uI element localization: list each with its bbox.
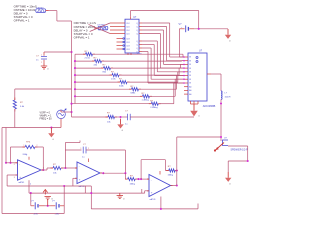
wire battery left down to U2: [178, 29, 180, 57]
wire: [56, 11, 58, 21]
speaker output loop: [228, 145, 248, 147]
op2 power stubs: [88, 159, 90, 163]
battery V+: [30, 193, 32, 206]
ground mid: [120, 119, 122, 125]
ladder row 8 wire: [72, 103, 152, 105]
svg-text:7: 7: [26, 155, 27, 157]
capacitor C3 mid: [127, 114, 129, 120]
wire bus to R2: [15, 88, 72, 90]
capacitor C2 feedback: [64, 150, 66, 168]
resistor R4 ladder: [112, 74, 119, 77]
wire row 8 to U2 pin: [158, 103, 174, 105]
svg-text:10mH: 10mH: [225, 97, 231, 99]
resistor R6: [128, 178, 136, 181]
svg-text:FREQ = 50: FREQ = 50: [40, 117, 53, 120]
op1 power stubs: [28, 157, 30, 160]
ground at input node: [50, 128, 52, 134]
svg-text:ADC0808B: ADC0808B: [203, 105, 216, 108]
resistor R8 ladder: [151, 102, 158, 105]
battery V-: [63, 186, 65, 214]
wire: [72, 116, 109, 118]
wire row 1 to U2 pin: [93, 53, 184, 55]
svg-text:SPEAKER-1/2-P: SPEAKER-1/2-P: [231, 149, 249, 152]
ground under C1: [43, 64, 45, 67]
ladder row 3 wire: [75, 67, 104, 69]
op3 output up to speaker: [171, 185, 177, 187]
wire op2 V- branch: [90, 186, 92, 209]
svg-text:-: -: [79, 165, 80, 169]
junction: [220, 102, 222, 104]
U1 right pins: [139, 22, 142, 24]
ladder row 2 wire: [75, 60, 95, 62]
resistor R3 ladder: [104, 67, 111, 70]
op1 + input to mid rail: [7, 174, 17, 176]
DAC U2 body: [188, 53, 207, 101]
speaker arrow: [216, 143, 225, 151]
op2 + input to rail: [73, 177, 77, 179]
svg-text:uA741: uA741: [150, 198, 157, 201]
analog bus node: [71, 21, 73, 117]
svg-text:1.4Meg: 1.4Meg: [142, 100, 150, 102]
wire diagonal to U1 pin: [89, 24, 111, 33]
op-amp U6 triangle: [149, 175, 171, 197]
svg-text:OPPVAL = 1: OPPVAL = 1: [14, 19, 30, 23]
wire battery to ground: [194, 28, 228, 30]
svg-text:21.5k: 21.5k: [85, 58, 91, 60]
wire to op3 -: [135, 178, 149, 180]
ground stem U2: [193, 104, 195, 111]
op3 + input to rail: [145, 190, 149, 192]
ground 0 top right: [227, 29, 229, 35]
ground speaker: [227, 172, 229, 178]
svg-text:1Meg: 1Meg: [168, 175, 174, 177]
wire left loop: [1, 128, 3, 214]
ladder row 7 wire: [75, 95, 143, 97]
resistor R6 ladder: [132, 88, 139, 91]
wire sine bottom / input node: [2, 127, 61, 129]
svg-text:6: 6: [43, 168, 44, 170]
op1 output: [41, 169, 47, 171]
resistor R8 feedback bridge: [140, 160, 142, 179]
svg-text:-: -: [151, 178, 152, 182]
resistor R7 ladder: [143, 95, 150, 98]
op3 power stubs: [159, 171, 161, 175]
wire: [14, 109, 16, 128]
op1 pin ticks: [16, 162, 18, 164]
ladder row 6 wire: [75, 88, 132, 90]
wire to U2 ground node: [130, 116, 194, 118]
op2 pin ticks: [75, 167, 77, 169]
wire L1 down to speaker: [220, 99, 222, 141]
ladder row 5 wire: [75, 81, 120, 83]
wire row 2 to U2 pin: [102, 60, 182, 62]
op-amp U5 triangle: [77, 162, 100, 184]
ground on rail: [119, 193, 121, 196]
resistor R2 ladder: [95, 60, 102, 63]
small stub net: [65, 142, 80, 144]
ladder row 1 wire: [75, 53, 86, 55]
ground under U2: [190, 111, 198, 117]
svg-text:2: 2: [14, 164, 15, 166]
resistor R1 ladder: [86, 53, 93, 56]
svg-text:1: 1: [41, 55, 42, 57]
wire sine to bus: [61, 111, 72, 113]
resistor R2 vertical: [13, 100, 16, 109]
svg-text:0: 0: [47, 69, 48, 71]
svg-text:2.8Meg: 2.8Meg: [150, 107, 158, 109]
svg-text:4: 4: [30, 184, 31, 186]
bottom rail: [91, 208, 198, 210]
wire to op2 -: [61, 167, 77, 169]
svg-text:2: 2: [41, 62, 42, 64]
svg-text:1: 1: [24, 145, 25, 147]
svg-text:2: 2: [37, 145, 38, 147]
mid supply rail: [7, 185, 91, 187]
power flag: [44, 191, 46, 195]
svg-text:0: 0: [123, 198, 124, 200]
rail connector: [84, 186, 86, 193]
wire row 6 to U2 pin: [139, 88, 177, 90]
U2 bottom pins: [190, 101, 192, 104]
svg-text:OPPVAL = 1: OPPVAL = 1: [74, 35, 90, 39]
wire row 3 to U2 pin: [111, 67, 181, 69]
wire: [57, 20, 72, 22]
U2 left pins: [184, 56, 188, 58]
V+ rail from U1 to battery net: [131, 10, 199, 12]
U2 bubble: [196, 57, 198, 59]
svg-text:1Meg: 1Meg: [130, 184, 136, 186]
ladder row 4 wire: [75, 74, 112, 76]
U2 bubble: [196, 61, 198, 63]
svg-text:1: 1: [81, 148, 82, 150]
wire C1 to bus: [44, 51, 72, 53]
resistor R5: [53, 166, 61, 169]
ground between batteries: [45, 205, 51, 207]
DSTM2 pin stub: [94, 27, 98, 29]
U2 right pin: [207, 73, 211, 75]
lower supply rail: [29, 192, 145, 194]
wire bundle U1 outputs to U2 inputs: [142, 22, 170, 24]
svg-text:3: 3: [14, 177, 15, 179]
svg-text:0: 0: [199, 115, 200, 117]
wire to op1 inverting input: [5, 128, 7, 163]
svg-text:uA741: uA741: [18, 181, 25, 184]
U1 left pins: [110, 22, 125, 24]
wire: [49, 10, 57, 12]
resistor R5 ladder: [120, 81, 127, 84]
U1 bottom pins: [127, 53, 129, 55]
svg-text:2: 2: [88, 148, 89, 150]
counter U1 74393 body: [125, 19, 139, 53]
summing bus node: [74, 54, 76, 103]
inductor L1: [220, 74, 222, 91]
resistor R4 feedback op1: [10, 147, 12, 163]
wire U2 out: [211, 73, 221, 75]
wire diagonal to U1 pin (crossing): [90, 23, 110, 32]
vsin arrow: [64, 109, 67, 112]
op-amp U4 triangle: [18, 160, 42, 180]
resistor R7 mid: [108, 115, 115, 118]
wire row 7 to U2 pin: [150, 95, 176, 97]
svg-text:-: -: [19, 162, 20, 166]
wire row 4 to U2 pin: [119, 74, 179, 76]
op2 output: [100, 172, 103, 174]
wire row 5 to U2 pin: [127, 81, 178, 83]
op3 pin ticks: [147, 178, 149, 180]
